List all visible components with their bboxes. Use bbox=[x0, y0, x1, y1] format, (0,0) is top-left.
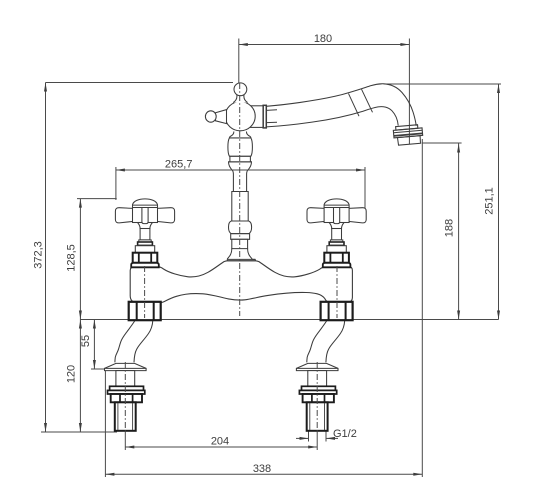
dimension 251.1 spout height bbox=[498, 84, 500, 320]
dimension 180 spout reach bbox=[239, 44, 410, 46]
svg-text:372,3: 372,3 bbox=[33, 241, 45, 269]
svg-text:188: 188 bbox=[444, 219, 456, 237]
svg-text:55: 55 bbox=[80, 335, 92, 347]
left valve handle assembly bbox=[115, 199, 174, 267]
centreline main column bbox=[239, 83, 241, 316]
column pillar bbox=[227, 248, 255, 259]
spout tube bbox=[266, 84, 416, 127]
extension line column centre to 180 dim bbox=[238, 39, 240, 84]
bottom reference line at shank end bbox=[41, 431, 117, 433]
extension line from faucet top (left) bbox=[46, 82, 234, 84]
svg-text:204: 204 bbox=[211, 436, 229, 448]
svg-text:180: 180 bbox=[314, 33, 332, 45]
spout segment joint lines bbox=[349, 94, 360, 117]
dimension 188 deck to aerator bbox=[458, 144, 460, 320]
dimension 265.7 handle span bbox=[116, 169, 365, 171]
aerator bbox=[393, 124, 423, 145]
dimension 120 shank length below deck bbox=[79, 320, 81, 433]
centreline right valve bbox=[336, 266, 338, 318]
svg-text:265,7: 265,7 bbox=[165, 158, 193, 170]
svg-text:G1/2: G1/2 bbox=[333, 428, 357, 440]
svg-text:128,5: 128,5 bbox=[65, 244, 77, 272]
extension line spout tip down bbox=[421, 139, 423, 477]
right valve handle assembly bbox=[307, 199, 366, 267]
extension line right shank centre down bbox=[316, 431, 318, 450]
svg-text:251,1: 251,1 bbox=[484, 187, 496, 215]
extension line from spout top (right) bbox=[384, 83, 501, 85]
left knob bbox=[205, 111, 216, 122]
left leg bbox=[105, 302, 161, 431]
spout collar bbox=[250, 106, 264, 128]
extension line left flange edge down bbox=[104, 371, 106, 477]
ball finial bbox=[234, 83, 247, 96]
extension line right handle outer edge bbox=[364, 167, 366, 208]
svg-text:338: 338 bbox=[253, 463, 271, 475]
centreline left shank bbox=[124, 362, 126, 433]
centreline left valve bbox=[144, 266, 146, 318]
right leg bbox=[296, 302, 352, 431]
extension line aerator bottom bbox=[422, 142, 462, 144]
dimension 55 deck to flange bbox=[93, 320, 95, 370]
dimension 204 hole centres bbox=[125, 446, 317, 448]
bridge body bbox=[130, 261, 352, 303]
centreline right shank bbox=[316, 362, 318, 433]
extension line left shank centre down bbox=[124, 431, 126, 450]
extension line aerator centre to 180 dim bbox=[408, 39, 410, 145]
dimension 372.3 overall height bbox=[45, 83, 47, 433]
left knob neck bbox=[216, 110, 227, 124]
spout joint edge lines bbox=[267, 109, 278, 112]
extension line left handle outer edge bbox=[115, 167, 117, 200]
dimension 338 overall projection bbox=[105, 473, 422, 475]
deck reference line bbox=[80, 319, 498, 321]
svg-text:120: 120 bbox=[65, 365, 77, 383]
ball finial neck bbox=[233, 95, 247, 103]
G1/2 thread label bbox=[308, 431, 310, 442]
dimension 128.5 handle height above deck bbox=[79, 199, 81, 320]
dimension 265.7 line over column bbox=[227, 169, 253, 171]
spout collar ring bbox=[263, 105, 266, 128]
head sphere bbox=[225, 102, 255, 131]
extension line handle top level bbox=[77, 198, 117, 200]
extension line flange bottom bbox=[91, 368, 105, 370]
